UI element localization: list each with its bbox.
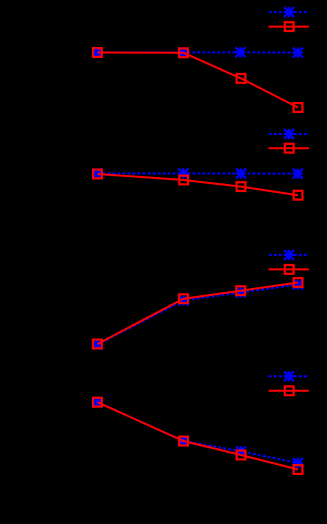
series S1-blue dashed line xyxy=(97,51,297,53)
series S2-blue dashed line xyxy=(98,172,298,174)
series S3-blue dashed line xyxy=(97,285,297,345)
series S4-blue dashed line xyxy=(97,402,297,463)
series S1-red line xyxy=(97,53,298,108)
legend 4 red entry xyxy=(269,390,309,392)
legend 3 red entry xyxy=(269,268,309,270)
legend 2 blue entry xyxy=(269,133,309,135)
S3-blue markers xyxy=(92,340,102,350)
legend 2 red entry xyxy=(269,147,309,149)
S2-red markers xyxy=(93,170,102,179)
S1-blue markers xyxy=(92,47,102,57)
S4-blue markers xyxy=(92,397,102,407)
S3-red markers xyxy=(93,340,102,349)
series S3-red line xyxy=(98,283,299,345)
legend 1 blue entry xyxy=(269,11,309,13)
series S4-red line xyxy=(97,402,298,469)
S2-blue markers xyxy=(93,168,103,178)
series S2-red line xyxy=(98,174,299,195)
S1-red markers xyxy=(93,48,102,57)
legend 3 blue entry xyxy=(269,254,309,256)
legend 1 red entry xyxy=(269,26,309,28)
S4-red markers xyxy=(93,398,102,407)
legend 4 blue entry xyxy=(269,375,309,377)
